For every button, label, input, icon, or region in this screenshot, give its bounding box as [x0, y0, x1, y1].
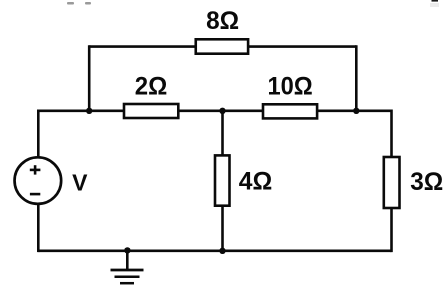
svg-text:V: V	[72, 169, 88, 195]
svg-text:10Ω: 10Ω	[267, 73, 312, 101]
svg-text:3Ω: 3Ω	[410, 168, 443, 196]
svg-text:2Ω: 2Ω	[135, 72, 168, 100]
svg-text:8Ω: 8Ω	[206, 7, 239, 35]
svg-text:4Ω: 4Ω	[239, 167, 273, 195]
